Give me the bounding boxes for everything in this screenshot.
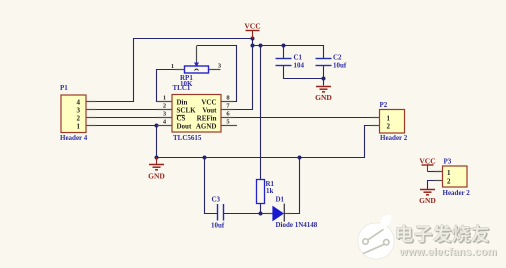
wire RP1 pin1 to U1 Din bbox=[157, 70, 185, 102]
svg-text:P1: P1 bbox=[60, 84, 68, 92]
svg-text:GND: GND bbox=[419, 196, 436, 205]
svg-text:Header 2: Header 2 bbox=[443, 189, 471, 197]
junction node C1 top bbox=[282, 44, 286, 48]
svg-text:2: 2 bbox=[77, 115, 81, 123]
svg-text:GND: GND bbox=[148, 172, 165, 181]
svg-text:www.elecfans.com: www.elecfans.com bbox=[399, 246, 498, 258]
ground GND below U1 bbox=[148, 158, 165, 181]
svg-text:10uf: 10uf bbox=[211, 222, 225, 230]
svg-text:TLC5615: TLC5615 bbox=[173, 134, 202, 142]
junction node R1 bottom bbox=[259, 212, 263, 216]
svg-text:VCC: VCC bbox=[419, 157, 435, 166]
svg-text:1: 1 bbox=[171, 63, 174, 70]
capacitor C1 bbox=[276, 54, 305, 70]
junction node VCC lower bbox=[251, 44, 255, 48]
wire P3.2 to GND bbox=[428, 181, 443, 190]
svg-text:C2: C2 bbox=[333, 54, 342, 62]
power symbol VCC top bbox=[244, 22, 260, 39]
header P3 bbox=[434, 158, 470, 198]
wire P1.2 to U1 CS bbox=[86, 117, 172, 119]
ground GND below C2 bbox=[315, 87, 332, 103]
capacitor C2 bbox=[316, 54, 347, 70]
wire C3 right to D1 anode bbox=[224, 213, 275, 215]
svg-text:REFin: REFin bbox=[197, 115, 217, 123]
svg-text:1: 1 bbox=[163, 95, 166, 102]
ground GND at P3 bbox=[419, 190, 436, 206]
svg-text:SCLK: SCLK bbox=[177, 107, 197, 115]
resistor R1 bbox=[257, 180, 275, 204]
junction node ground rail left bbox=[155, 156, 159, 160]
svg-text:VCC: VCC bbox=[244, 22, 260, 31]
power symbol VCC at P3 bbox=[419, 157, 435, 172]
svg-text:Dout: Dout bbox=[177, 123, 192, 131]
watermark text elecfans bbox=[397, 225, 498, 260]
capacitor C3 bbox=[211, 196, 225, 230]
svg-text:P3: P3 bbox=[444, 158, 452, 166]
wire RP1 wiper to U1 pin8 bbox=[197, 46, 237, 102]
svg-text:Vout: Vout bbox=[202, 107, 217, 115]
svg-text:GND: GND bbox=[315, 93, 332, 102]
svg-text:P2: P2 bbox=[380, 101, 388, 109]
watermark logo circle bbox=[358, 215, 394, 259]
svg-text:Header 4: Header 4 bbox=[60, 134, 88, 142]
svg-text:2: 2 bbox=[163, 103, 166, 110]
junction node ground rail C3 branch bbox=[203, 156, 207, 160]
svg-text:1: 1 bbox=[447, 169, 451, 177]
svg-text:2: 2 bbox=[387, 123, 391, 131]
wire VCC node to C1 C2 tops bbox=[253, 46, 324, 59]
svg-text:3: 3 bbox=[77, 107, 81, 115]
svg-text:VCC: VCC bbox=[201, 99, 216, 107]
wire VCC to P3.1 bbox=[428, 171, 443, 173]
op-amp U1 TLC5615 bbox=[157, 84, 237, 142]
wire ground rail to P2.2 bbox=[157, 126, 380, 158]
wire VCC node down to U1 pin7 Vout bbox=[221, 39, 253, 110]
wire C2 bottom to GND stub bbox=[323, 79, 325, 86]
wire Dout node down to ground rail bbox=[156, 126, 158, 158]
junction node ground rail D1 branch bbox=[298, 156, 302, 160]
junction node C2 bottom GND bbox=[322, 77, 326, 81]
svg-text:Din: Din bbox=[177, 99, 188, 107]
header P2 bbox=[371, 101, 408, 142]
junction node Dout row bbox=[155, 124, 159, 128]
svg-text:D1: D1 bbox=[276, 196, 285, 204]
wire VCC node down to R1 top bbox=[260, 46, 262, 180]
wire P1.4 to VCC node bbox=[86, 39, 253, 102]
svg-text:1: 1 bbox=[387, 115, 391, 123]
wire R1 bottom to bottom rail bbox=[260, 204, 262, 214]
resistor RP1 potentiometer bbox=[171, 46, 222, 88]
svg-text:1k: 1k bbox=[266, 187, 274, 195]
wire C1 top stub bbox=[283, 46, 285, 59]
junction node VCC upper bbox=[251, 37, 255, 41]
wire C1 C2 bottoms bbox=[284, 66, 324, 79]
svg-text:2: 2 bbox=[447, 178, 451, 186]
svg-text:4: 4 bbox=[77, 99, 81, 107]
svg-text:Header 2: Header 2 bbox=[380, 134, 408, 142]
svg-text:10K: 10K bbox=[180, 80, 193, 88]
wire P1.1 to U1 Dout bbox=[86, 125, 172, 127]
svg-text:10uf: 10uf bbox=[333, 62, 347, 70]
svg-text:AGND: AGND bbox=[196, 123, 217, 131]
diode D1 1N4148 bbox=[266, 196, 318, 230]
svg-text:1: 1 bbox=[77, 123, 81, 131]
svg-text:104: 104 bbox=[294, 62, 305, 70]
header P1 bbox=[60, 84, 96, 142]
svg-text:Diode 1N4148: Diode 1N4148 bbox=[276, 221, 318, 229]
svg-text:C1: C1 bbox=[294, 54, 303, 62]
wire U1 REFin to P2.1 bbox=[221, 117, 380, 119]
wire P1.3 to U1 SCLK bbox=[86, 109, 172, 111]
junction node R1 top branch bbox=[259, 44, 263, 48]
wire ground rail down to C3 left bbox=[205, 158, 218, 214]
wire D1 cathode up to ground rail bbox=[285, 158, 300, 214]
svg-text:C3: C3 bbox=[212, 196, 221, 204]
